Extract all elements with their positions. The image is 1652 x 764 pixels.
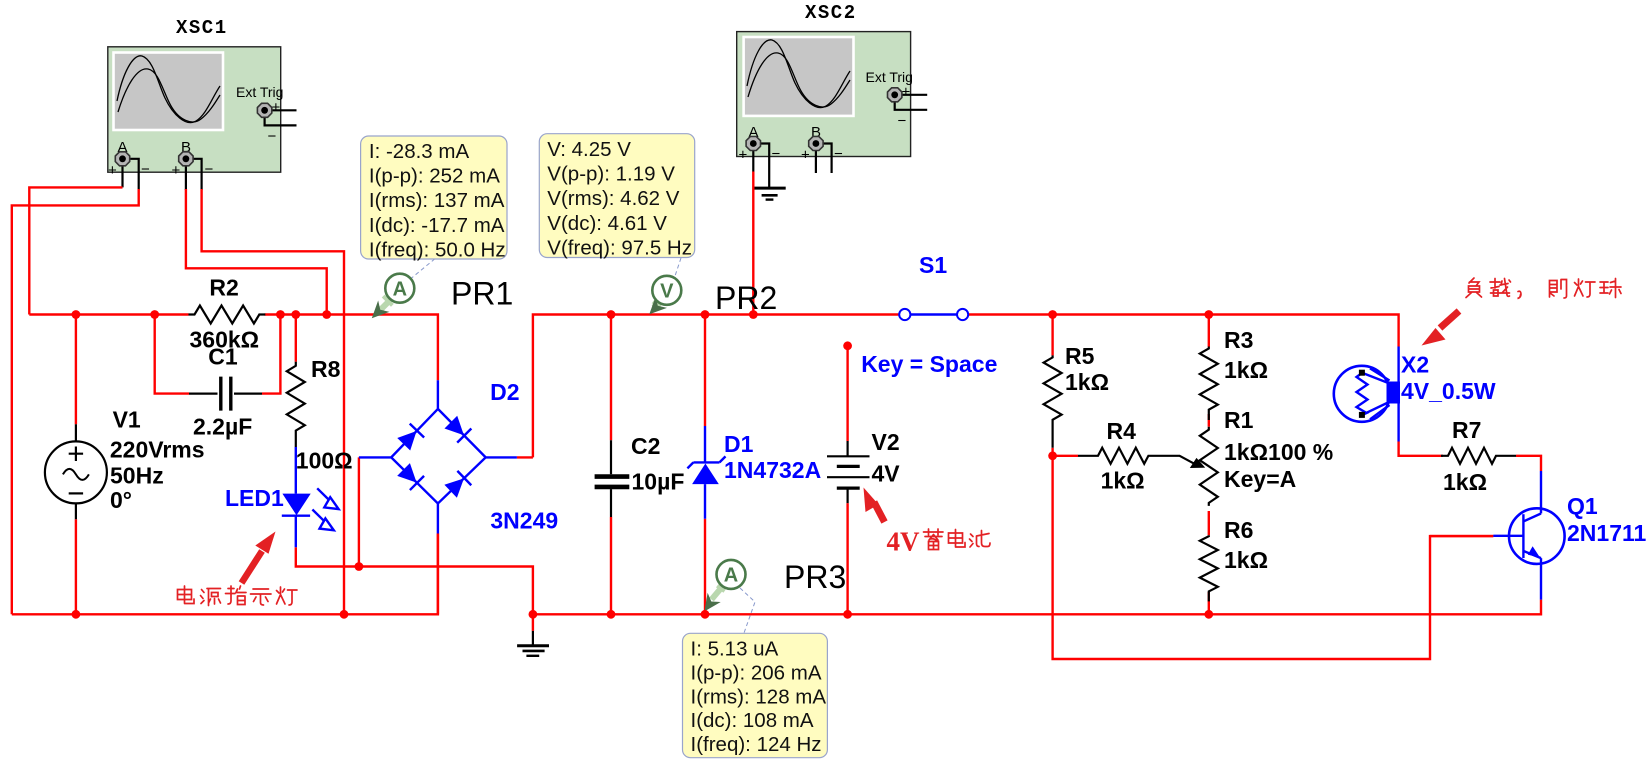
measurement box PR3 (current) [683, 633, 828, 757]
wire XSC1 A- down far-left to bottom rail [12, 189, 139, 614]
svg-text:−: − [268, 128, 277, 145]
junction bottom rail at XSC1 B- [340, 610, 349, 619]
resistor R6 [1200, 535, 1218, 601]
wire XSC2 A+ pin stub [752, 148, 754, 172]
svg-text:V1: V1 [113, 407, 141, 433]
wire R8 top [295, 315, 297, 362]
svg-text:PR3: PR3 [784, 559, 846, 595]
wire top rail right segment (bridge+ to S1 and loads) [533, 315, 1399, 458]
junction bottom rail at R6 [1204, 610, 1213, 619]
svg-text:I: -28.3 mA: I: -28.3 mA [369, 140, 470, 163]
switch S1 [880, 309, 988, 320]
wire XSC1 A- hook to far-left drop [123, 159, 139, 190]
ground (main circuit) [517, 631, 549, 656]
probe PR3 arrow and circle [698, 560, 755, 633]
XSC1 Ext Trig terminal [257, 103, 271, 117]
svg-text:V: V [660, 281, 674, 303]
wire C2 top [610, 315, 612, 441]
svg-text:V(p-p): 1.19 V: V(p-p): 1.19 V [547, 163, 675, 186]
svg-text:D1: D1 [724, 431, 754, 457]
junction top rail at C1 left [150, 310, 159, 319]
svg-text:I(p-p): 206 mA: I(p-p): 206 mA [691, 661, 822, 684]
wire XSC2 A+ down to top rail [752, 172, 754, 315]
wire LED1 bottom to mid rail [296, 547, 533, 614]
AC source V1 [45, 424, 107, 519]
ground (XSC2 A-) [753, 188, 786, 200]
potentiometer wiper arrow [1180, 456, 1203, 467]
svg-text:R6: R6 [1224, 517, 1253, 543]
wire R3 to R1 [1208, 414, 1210, 427]
svg-text:XSC1: XSC1 [176, 17, 228, 39]
wire C1 left branch [155, 315, 189, 394]
junction mid rail at bridge left [355, 562, 364, 571]
annotation red arrow to LED1 [242, 532, 276, 584]
svg-text:V(freq): 97.5 Hz: V(freq): 97.5 Hz [547, 236, 692, 259]
svg-text:1N4732A: 1N4732A [724, 457, 821, 483]
wire X2 column red parts [1399, 442, 1443, 456]
junction top rail at R8 [291, 310, 300, 319]
wire R3 top [1208, 315, 1210, 347]
svg-text:4V: 4V [872, 461, 901, 487]
svg-text:R7: R7 [1452, 417, 1481, 443]
zener diode D1 [687, 426, 725, 519]
resistor R4 [1078, 448, 1180, 464]
junction top rail at R3 [1204, 310, 1213, 319]
svg-text:50Hz: 50Hz [110, 462, 164, 488]
wire bottom rail left segment [12, 534, 438, 615]
annotation red arrow to V2 [864, 488, 885, 523]
svg-text:2.2µF: 2.2µF [193, 414, 252, 440]
wire XSC1 B- crossing to bottom rail [202, 189, 344, 614]
annotation text 4V xu-dian-chi (4V storage battery) [887, 527, 991, 557]
svg-text:X2: X2 [1401, 352, 1429, 378]
svg-text:+: + [108, 162, 117, 179]
svg-text:4V_0.5W: 4V_0.5W [1401, 378, 1496, 404]
XSC2 Ext Trig terminal [888, 88, 902, 102]
svg-text:−: − [834, 146, 843, 163]
svg-text:R8: R8 [311, 356, 341, 382]
wire R5 top [1051, 315, 1053, 356]
wire XSC2 B- hook stub (unconnected) [816, 144, 832, 174]
resistor R5 [1044, 355, 1062, 447]
LED LED1 [282, 447, 339, 547]
XSC1 A plus/minus labels [108, 161, 150, 179]
svg-text:100Ω: 100Ω [296, 447, 353, 473]
svg-text:1kΩ: 1kΩ [1065, 369, 1109, 395]
svg-text:1kΩ100 %: 1kΩ100 % [1224, 439, 1333, 465]
oscilloscope XSC2 [737, 32, 911, 157]
svg-text:Ext Trig: Ext Trig [236, 84, 283, 100]
svg-text:I(rms): 128 mA: I(rms): 128 mA [691, 685, 827, 708]
svg-text:220Vrms: 220Vrms [110, 436, 205, 462]
XSC1 B terminal [179, 152, 193, 166]
svg-text:I(freq): 124 Hz: I(freq): 124 Hz [691, 733, 822, 756]
svg-text:10µF: 10µF [632, 469, 685, 495]
wire ground stub below bottom rail [532, 614, 534, 631]
wire XSC2 B+ pin stub (unconnected) [815, 148, 817, 173]
wire D1 bottom [704, 519, 706, 615]
diode bridge D2 [359, 380, 517, 533]
svg-text:+: + [272, 99, 281, 116]
capacitor C1 [189, 377, 262, 411]
svg-text:I(dc): -17.7 mA: I(dc): -17.7 mA [369, 214, 505, 237]
junction top rail at XSC1 B+ [322, 310, 331, 319]
svg-text:C2: C2 [631, 433, 660, 459]
junction bottom rail at C2 [607, 610, 616, 619]
battery V2 [827, 441, 870, 503]
svg-text:−: − [141, 161, 150, 178]
wire Q1 base red segment [1430, 535, 1493, 537]
measurement box PR2 (voltage) [539, 134, 694, 260]
junction top rail at R5 [1048, 310, 1057, 319]
svg-text:1kΩ: 1kΩ [1224, 357, 1268, 383]
wire top rail left segment (V1+ to bridge top) [29, 315, 438, 381]
svg-text:Q1: Q1 [1567, 493, 1598, 519]
svg-text:XSC2: XSC2 [805, 2, 857, 24]
svg-text:I(rms): 137 mA: I(rms): 137 mA [369, 189, 505, 212]
svg-text:Key=A: Key=A [1224, 466, 1296, 492]
XSC2 A plus/minus labels [739, 146, 781, 164]
wire R4 node down and feedback rail to Q1 base [1053, 456, 1494, 659]
svg-text:V2: V2 [872, 429, 900, 455]
svg-text:PR2: PR2 [715, 280, 777, 316]
wire C2 bottom [610, 517, 612, 614]
svg-text:0°: 0° [110, 487, 132, 513]
wire XSC1 A+ pin stub [121, 163, 123, 187]
wire V2 top stub [846, 346, 848, 441]
junction top rail at D1 [701, 310, 710, 319]
potentiometer R1 [1200, 427, 1218, 506]
wire C1 right branch [262, 315, 280, 394]
wire D1 top [704, 315, 706, 427]
svg-text:+: + [172, 162, 181, 179]
probe PR2 circle and arrow [644, 258, 682, 320]
svg-text:I(dc): 108 mA: I(dc): 108 mA [691, 709, 814, 732]
junction top rail at C2 [607, 310, 616, 319]
svg-text:R3: R3 [1224, 327, 1253, 353]
svg-text:+: + [902, 84, 911, 101]
wire bridge left lead down to mid rail [358, 457, 360, 566]
resistor R3 [1200, 347, 1218, 421]
resistor R2 [189, 306, 266, 324]
wire bridge right lead to top rail riser [517, 456, 533, 458]
wire R7 right to Q1 collector [1516, 456, 1541, 471]
svg-text:R2: R2 [209, 275, 238, 301]
wire V1 bottom [75, 519, 77, 614]
junction V2 top stub [843, 341, 852, 350]
junction bottom rail at ground [529, 610, 538, 619]
measurement box PR1 (current) [361, 136, 507, 261]
wire XSC1 B- hook [186, 159, 202, 190]
wire V2 bottom [846, 503, 848, 614]
XSC1 A terminal [115, 152, 129, 166]
svg-text:−: − [205, 161, 214, 178]
oscilloscope XSC1 [108, 47, 281, 172]
svg-text:R4: R4 [1107, 418, 1137, 444]
junction top rail at XSC2 A+ [749, 310, 758, 319]
svg-text:+: + [739, 147, 748, 164]
XSC1 Ext Trig pin stubs [265, 99, 297, 145]
wire XSC1 A+ to top rail left end [29, 187, 122, 314]
lamp X2 [1334, 347, 1400, 442]
svg-text:R5: R5 [1065, 343, 1095, 369]
junction bottom rail at PR3 [701, 610, 710, 619]
svg-text:I(p-p): 252 mA: I(p-p): 252 mA [369, 165, 500, 188]
svg-text:C1: C1 [208, 343, 238, 369]
junction bottom rail at V1 [72, 610, 81, 619]
svg-text:I(freq): 50.0 Hz: I(freq): 50.0 Hz [369, 238, 506, 261]
transistor Q1 [1493, 471, 1564, 600]
junction bottom rail at V2 [843, 610, 852, 619]
svg-text:A: A [393, 278, 407, 300]
junction R5/R4 node [1048, 451, 1057, 460]
XSC2 B plus/minus labels [801, 146, 843, 164]
svg-text:V: 4.25 V: V: 4.25 V [547, 138, 631, 161]
svg-text:3N249: 3N249 [490, 508, 558, 534]
annotation text fu-zai-ji-deng-zhu (load, i.e. lamp bead) [1466, 278, 1621, 299]
svg-text:Key = Space: Key = Space [861, 351, 997, 377]
svg-text:−: − [898, 113, 907, 130]
wire XSC1 B+ pin stub [185, 163, 187, 190]
svg-text:S1: S1 [919, 252, 947, 278]
wire XSC1 B+ to top rail (after R2) [186, 189, 327, 315]
annotation text dian-yuan-zhi-shi-deng (power indicator) [178, 586, 298, 606]
wire R1 to R6 [1208, 511, 1210, 535]
svg-text:D2: D2 [490, 379, 519, 405]
svg-text:V(rms): 4.62 V: V(rms): 4.62 V [547, 187, 679, 210]
wire R4 left lead red [1053, 455, 1078, 457]
XSC1 B plus/minus labels [172, 161, 214, 179]
capacitor C2 [595, 440, 630, 517]
svg-text:+: + [801, 147, 810, 164]
svg-text:1kΩ: 1kΩ [1224, 547, 1268, 573]
annotation red arrow to X2 [1422, 311, 1460, 346]
svg-text:2N1711: 2N1711 [1567, 520, 1647, 546]
svg-text:R1: R1 [1224, 407, 1254, 433]
wire V1 top [75, 315, 77, 425]
svg-text:A: A [724, 565, 738, 587]
svg-text:4V: 4V [887, 527, 921, 557]
resistor R8 [287, 362, 305, 447]
svg-text:1kΩ: 1kΩ [1101, 468, 1145, 494]
probe PR1 circle and arrow [366, 259, 435, 324]
wire bridge bottom to bottom rail [437, 534, 439, 615]
svg-text:−: − [772, 146, 781, 163]
wire R5 bottom to R4 node [1051, 448, 1053, 456]
svg-text:PR1: PR1 [451, 276, 513, 312]
wire R6 bottom [1208, 592, 1210, 614]
svg-text:I: 5.13 uA: I: 5.13 uA [691, 638, 779, 661]
resistor R7 [1441, 448, 1516, 464]
XSC2 A terminal [746, 137, 760, 151]
XSC2 B terminal [809, 137, 823, 151]
XSC2 Ext Trig pin stubs [895, 84, 928, 130]
wire XSC2 A- hook to ground [753, 144, 769, 189]
junction top rail at C1 right [276, 310, 285, 319]
wire bottom rail right segment (ground node to Q1 emitter) [533, 600, 1541, 615]
svg-text:1kΩ: 1kΩ [1443, 469, 1487, 495]
junction top rail at V1 [72, 310, 81, 319]
svg-text:V(dc): 4.61 V: V(dc): 4.61 V [547, 212, 667, 235]
svg-text:LED1: LED1 [225, 485, 284, 511]
